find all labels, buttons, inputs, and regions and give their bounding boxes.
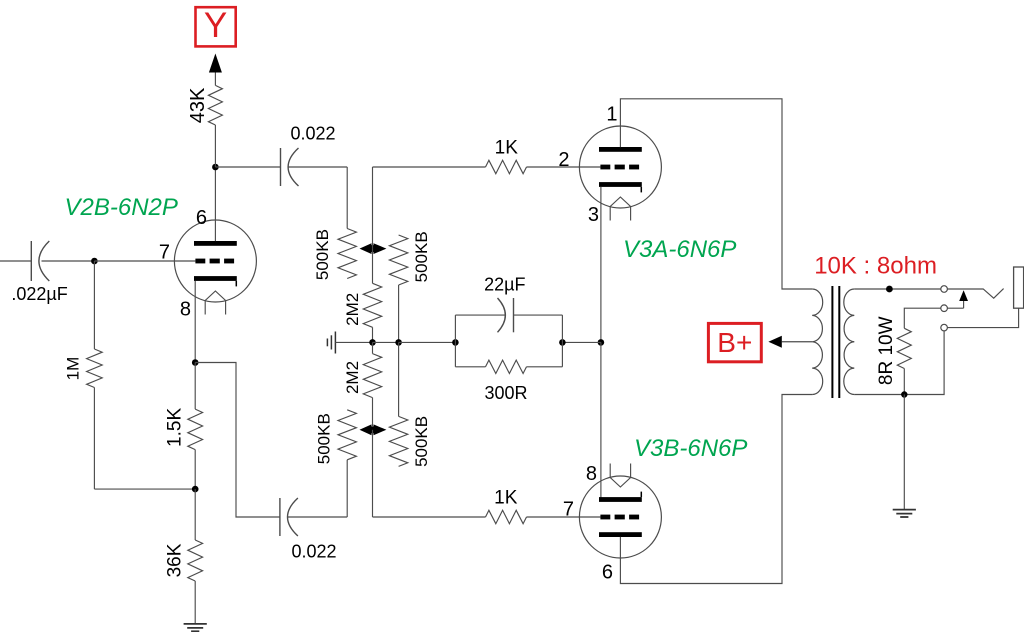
wire input [0,260,31,262]
wire 1K to V3A grid pin 2 [527,166,601,168]
svg-text:6: 6 [602,562,613,584]
terminal ring switch [941,305,948,312]
wire bias row a [373,341,399,343]
wire bias row b [399,341,456,343]
wire V2B cathode to node [194,281,196,363]
wire V3B plate to transformer [620,395,812,584]
resistor 2M2 lower [372,342,374,353]
tube V2B triode [174,220,256,302]
capacitor 0.022 upper [280,148,282,186]
resistor 1K upper [486,160,527,173]
wire 1M to cathode divider node [94,488,195,490]
node secondary bottom [901,391,907,397]
wire ring switch to arrow [947,307,963,309]
wire ring switch to 8R [904,308,941,328]
wire bias to RC block [562,341,601,343]
wire V3A plate to transformer [620,99,812,289]
resistor 300R [455,366,485,368]
potentiometer 500KB upper left [338,229,356,279]
wire V2B plate to node [214,167,216,241]
svg-text:Y: Y [204,6,227,45]
wire cathode join to V3B cathode [600,342,602,499]
wiper arrows lower [360,424,372,435]
potentiometer 500KB lower right [398,342,400,416]
wire input cap to grid node [42,260,95,262]
wiper node upper [369,245,376,252]
node secondary top [886,286,893,293]
node bias wiper line [369,339,376,346]
resistor 2M2 upper [372,249,374,284]
svg-text:1K: 1K [495,137,519,158]
RC block left rail [454,315,456,367]
svg-text:7: 7 [159,241,170,263]
node input [91,258,98,265]
jack tip spring [947,289,1003,299]
svg-text:500KB: 500KB [313,229,332,280]
node divider [192,486,199,493]
wire V3A cathode down [600,187,602,343]
svg-text:500KB: 500KB [315,413,334,464]
svg-text:300R: 300R [484,383,527,403]
jack switch arrow [963,301,965,308]
svg-text:.022µF: .022µF [11,284,67,304]
terminal ring sleeve [941,324,948,331]
svg-text:1: 1 [606,103,617,125]
capacitor 0.022 lower [279,498,281,536]
svg-text:500KB: 500KB [412,416,431,467]
node RC right [559,339,566,346]
capacitor 22uF [455,314,505,316]
RC block right rail [561,315,563,367]
wire center tap to B+ [782,341,812,343]
svg-text:B+: B+ [717,327,752,358]
wire ring sleeve to jack body [947,308,1018,327]
wire grid node to V2B pin 7 [94,260,195,262]
svg-text:0.022: 0.022 [291,542,336,562]
wire cathode node to lower cap [195,363,280,518]
resistor 1.5K [194,363,196,410]
lead volume pot top [346,167,348,229]
resistor 43K [214,125,216,167]
svg-text:2M2: 2M2 [343,293,362,326]
resistor 1K lower [486,510,527,523]
potentiometer 500KB upper right [389,235,407,285]
svg-text:8: 8 [180,299,191,321]
node cathode join [598,339,605,346]
wire ring sleeve to ground node [904,331,944,395]
transformer secondary winding [844,289,855,395]
node V2B plate [212,164,219,171]
ground 36K [194,581,196,624]
tube V3A triode [579,126,661,208]
svg-text:7: 7 [563,499,574,521]
ground bias row [326,339,328,347]
svg-text:2M2: 2M2 [343,361,362,394]
capacitor .022uF input [30,241,32,281]
wire wiper top to 1K [373,166,486,168]
wire coupling cap to volume pot [288,166,347,168]
arrow B+ [768,336,781,348]
svg-text:2: 2 [558,149,569,171]
wire plate node to coupling cap [215,166,280,168]
node bias pot right [395,339,402,346]
svg-text:43K: 43K [187,87,209,123]
svg-text:0.022: 0.022 [290,124,335,144]
ground speaker [903,395,905,510]
resistor 1M [93,261,95,349]
node V2B cathode [192,359,199,366]
potentiometer 500KB lower left [338,410,356,460]
svg-text:8: 8 [586,463,597,485]
svg-text:8R 10W: 8R 10W [876,316,897,385]
port Y box [196,7,236,46]
svg-text:10K : 8ohm: 10K : 8ohm [814,253,937,280]
port B+ box [708,323,761,361]
svg-text:36K: 36K [165,543,186,577]
resistor 36K [194,489,196,540]
svg-text:1M: 1M [64,357,83,381]
svg-text:V2B-6N2P: V2B-6N2P [65,194,178,221]
svg-text:1.5K: 1.5K [165,408,186,447]
svg-text:500KB: 500KB [412,231,431,282]
jack body [1014,267,1024,308]
wire secondary bottom [854,394,904,396]
transformer primary winding [812,289,822,395]
svg-text:22µF: 22µF [484,275,525,295]
terminal ring tip [941,286,948,293]
wire wiper line to top [372,167,374,249]
resistor 8R 10W [897,328,911,368]
transformer core [831,286,833,398]
tube V3B triode [579,476,661,558]
wire 1K to V3B grid pin 7 [527,516,601,518]
wiper arrows upper [360,243,372,254]
svg-text:1K: 1K [494,488,518,509]
wire lower cap to pot [288,516,347,518]
arrow to Y [209,54,222,73]
wire ground to bias row [335,341,372,343]
wire secondary top [854,288,941,290]
wire lower wiper to V3B grid row [372,430,374,517]
svg-text:V3B-6N6P: V3B-6N6P [634,435,747,462]
svg-text:3: 3 [588,204,599,226]
svg-text:V3A-6N6P: V3A-6N6P [623,236,736,263]
node RC left [452,339,459,346]
wiper node lower [369,426,376,433]
svg-text:6: 6 [196,207,207,229]
